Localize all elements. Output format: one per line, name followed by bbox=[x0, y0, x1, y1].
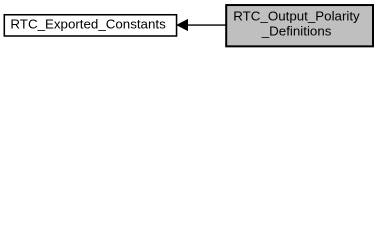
svg-text:RTC_Output_Polarity: RTC_Output_Polarity bbox=[233, 9, 360, 24]
svg-text:RTC_Exported_Constants: RTC_Exported_Constants bbox=[10, 17, 166, 32]
svg-text:_Definitions: _Definitions bbox=[261, 24, 332, 39]
